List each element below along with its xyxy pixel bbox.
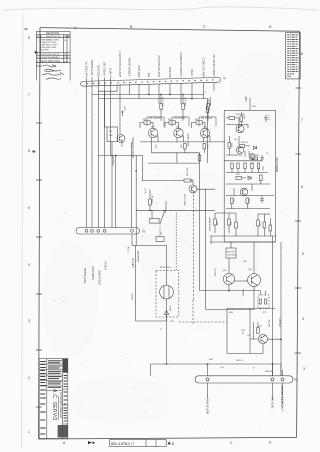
terminal strip TB3 bbox=[195, 376, 293, 383]
svg-text:3B: 3B bbox=[24, 27, 28, 31]
bottom fold label box bbox=[110, 440, 167, 447]
TB3 pin 2 bbox=[271, 378, 274, 381]
svg-text:+ TACH SIG: + TACH SIG bbox=[282, 398, 285, 412]
capacitor C2 bbox=[260, 155, 263, 162]
wiring y172 bbox=[226, 169, 268, 173]
svg-text:C6 .47: C6 .47 bbox=[145, 187, 147, 194]
svg-text:REVISIONS: REVISIONS bbox=[46, 32, 59, 35]
TB3 below stubs bbox=[207, 383, 209, 398]
bus wire L2 bbox=[98, 85, 117, 93]
terminal strip TB1 bbox=[80, 77, 220, 86]
bus wire L3 bbox=[92, 93, 204, 95]
resistor comb R35b bbox=[237, 163, 239, 169]
diode CR1 bbox=[254, 146, 257, 149]
TB2 pin 5 bbox=[131, 229, 134, 232]
notes block frame bbox=[286, 33, 301, 79]
svg-text:+15V: +15V bbox=[125, 105, 127, 111]
+28V feed bbox=[249, 98, 251, 110]
revision table frame bbox=[36, 32, 70, 63]
svg-text:- TACH SIGNAL: - TACH SIGNAL bbox=[91, 58, 94, 77]
svg-text:SYM: SYM bbox=[37, 36, 42, 38]
wire drop to TB2 bbox=[111, 155, 113, 227]
transistor Q12 bbox=[258, 334, 267, 343]
resistor R32 bbox=[228, 143, 231, 149]
svg-text:DESCRIPTION: DESCRIPTION bbox=[46, 36, 61, 38]
TB2 pin 4 bbox=[103, 229, 106, 232]
divider y160.8 bbox=[224, 160, 262, 162]
svg-text:GND (SIG): GND (SIG) bbox=[138, 65, 141, 77]
scan noise bbox=[124, 92, 127, 95]
base resistor R4 bbox=[144, 121, 150, 124]
transistor Q6c bbox=[249, 154, 255, 160]
zone ticks right edge bbox=[296, 87, 302, 89]
svg-text:Q6 2N1132: Q6 2N1132 bbox=[201, 118, 213, 120]
power transistor Q10 bbox=[223, 273, 234, 284]
resistor R43 bbox=[257, 220, 260, 226]
stage 1: resistor R1 bbox=[160, 104, 163, 110]
svg-text:R16: R16 bbox=[181, 145, 183, 148]
+15V stub bbox=[121, 111, 124, 117]
svg-text:6: 6 bbox=[301, 185, 303, 189]
resistor R36 bbox=[236, 177, 242, 180]
inter-stage bus y152.8 bbox=[152, 152, 200, 154]
emitter resistor R7 bbox=[184, 144, 187, 149]
svg-text:COMMON: COMMON bbox=[113, 155, 115, 166]
svg-text:TB: TB bbox=[294, 379, 297, 382]
svg-text:R13: R13 bbox=[156, 145, 158, 148]
svg-text:R17: R17 bbox=[195, 119, 198, 121]
bottom row: resistor R40 bbox=[214, 219, 217, 225]
lower rows of block bbox=[226, 184, 274, 196]
resistor R38 bbox=[231, 198, 234, 204]
svg-text:SPEED CONTROL: SPEED CONTROL bbox=[132, 136, 135, 158]
TB3 pin 3 bbox=[281, 378, 284, 381]
resistor R25 bbox=[198, 155, 201, 161]
resistor R50 bbox=[259, 299, 261, 304]
resistor R42 bbox=[235, 222, 238, 228]
svg-text:5: 5 bbox=[28, 206, 30, 210]
motor M1 bbox=[160, 285, 174, 299]
bus y163 bbox=[148, 162, 200, 164]
handwritten revision entries bbox=[43, 65, 56, 68]
wiring top bbox=[226, 112, 241, 128]
svg-text:SHUNT: SHUNT bbox=[132, 292, 134, 300]
svg-text:2N1132: 2N1132 bbox=[122, 139, 124, 147]
base resistor R5 bbox=[169, 121, 175, 124]
TB2 drop wire bbox=[131, 234, 133, 245]
diode CR4 bbox=[248, 176, 251, 179]
svg-text:7: 7 bbox=[28, 93, 30, 97]
TB2 pin 3 bbox=[97, 229, 100, 232]
svg-text:ARMATURE: ARMATURE bbox=[137, 250, 140, 262]
Q1 wiring bbox=[119, 127, 121, 135]
transistor Q3 bbox=[174, 128, 183, 137]
dashed rail lower bbox=[192, 300, 194, 325]
bus wire L4 bbox=[98, 98, 207, 100]
stage feed drops bbox=[160, 94, 162, 104]
resistor R51 bbox=[264, 299, 266, 304]
TB3 pin 1 bbox=[206, 378, 209, 381]
svg-text:MODULATOR: MODULATOR bbox=[276, 157, 279, 172]
motor dashed enclosure bbox=[156, 271, 179, 318]
resistor R20 bbox=[149, 199, 152, 205]
resistor R39 bbox=[246, 198, 249, 204]
power wiring bbox=[206, 286, 255, 309]
bus y210.3 bbox=[136, 209, 215, 211]
fold marks bbox=[88, 441, 92, 444]
dashed rail bbox=[193, 191, 195, 300]
svg-text:SCHEMATIC DIAGRAM: SCHEMATIC DIAGRAM bbox=[59, 392, 62, 418]
resistor feed wires bbox=[160, 109, 162, 120]
svg-text:4: 4 bbox=[28, 263, 30, 267]
TB3 drop wires bbox=[207, 364, 209, 376]
svg-text:5: 5 bbox=[302, 252, 304, 256]
TB2 pin 2 bbox=[91, 229, 94, 232]
stage wiring bbox=[140, 123, 153, 129]
transistor Q4 bbox=[200, 128, 209, 137]
resistor comb R35a bbox=[231, 163, 233, 169]
diode CR8 bbox=[164, 311, 168, 315]
title block dark stamp cells bbox=[63, 359, 68, 372]
title block frame bbox=[39, 359, 68, 439]
resistor R37 bbox=[260, 175, 263, 181]
svg-text:NOTES: NOTES bbox=[42, 50, 50, 52]
svg-text:R29 2K: R29 2K bbox=[241, 142, 249, 144]
svg-text:+28V DC SHIELD: +28V DC SHIELD bbox=[203, 57, 206, 77]
svg-text:+5V TEST PT: +5V TEST PT bbox=[86, 61, 89, 77]
resistor comb R35d bbox=[251, 163, 253, 169]
stage 2 outline bbox=[172, 117, 189, 126]
junction dots bbox=[149, 210, 151, 212]
scan noise 2 bbox=[202, 41, 205, 44]
dashed tach link bbox=[175, 213, 177, 271]
common bus y155.4 bbox=[98, 154, 142, 156]
transistor Q6a bbox=[236, 125, 244, 133]
svg-text:R40 5W: R40 5W bbox=[269, 320, 271, 327]
svg-text:1-8TB-2: 1-8TB-2 bbox=[278, 318, 281, 327]
stage 3 outline bbox=[199, 117, 216, 126]
bottom row wiring bbox=[215, 213, 270, 225]
TB2 pin 1 bbox=[85, 229, 88, 232]
svg-text:R12 4.7K: R12 4.7K bbox=[163, 96, 165, 106]
output box label bbox=[226, 248, 236, 258]
border stain mark bbox=[32, 150, 35, 152]
svg-text:RT1: RT1 bbox=[263, 312, 267, 314]
wire right of Q5 bbox=[205, 189, 207, 309]
svg-text:- SPEED REF: - SPEED REF bbox=[104, 61, 107, 77]
stage 3: resistor R3 bbox=[207, 104, 210, 110]
svg-text:R19: R19 bbox=[208, 145, 210, 148]
svg-text:R48 1W: R48 1W bbox=[265, 371, 272, 373]
resistor R41 bbox=[228, 219, 231, 225]
power transistor Q11 bbox=[248, 274, 261, 287]
dashed link motor to amp bbox=[179, 321, 227, 323]
modulator block frame bbox=[224, 110, 275, 242]
svg-text:GND (SIG): GND (SIG) bbox=[97, 65, 100, 77]
left rail wires bbox=[86, 78, 88, 228]
TB1 pin number marks bbox=[87, 80, 214, 84]
svg-text:+ INPUT: + INPUT bbox=[109, 67, 112, 77]
svg-text:R11: R11 bbox=[143, 119, 146, 121]
svg-text:TB: TB bbox=[223, 77, 227, 80]
bottom bus bbox=[151, 363, 282, 365]
svg-text:REDRAWN & REV: REDRAWN & REV bbox=[42, 38, 60, 41]
mid wiring bbox=[229, 136, 250, 157]
svg-text:TB5: TB5 bbox=[148, 72, 151, 77]
small circle Q6b bbox=[236, 146, 243, 153]
junction dots bbox=[148, 94, 193, 100]
svg-text:4: 4 bbox=[302, 317, 304, 321]
right side wires to TB3 bbox=[272, 236, 274, 376]
svg-text:+28V DC: +28V DC bbox=[132, 258, 135, 268]
resistor R30 bbox=[229, 117, 235, 120]
zone ticks left edge bbox=[36, 66, 42, 407]
notes text lines (rotated tiny print) bbox=[287, 35, 298, 76]
stage 2: resistor R2 bbox=[182, 104, 185, 110]
resistor R22 bbox=[184, 179, 191, 182]
wiring y184 bbox=[226, 178, 270, 184]
svg-text:F1 5A: F1 5A bbox=[127, 246, 130, 252]
svg-text:6: 6 bbox=[28, 149, 30, 153]
svg-text:SHIELD: SHIELD bbox=[105, 261, 108, 270]
svg-text:R44 10: R44 10 bbox=[236, 360, 244, 362]
svg-text:- SYNC: - SYNC bbox=[191, 69, 194, 78]
svg-text:ECN 2410 ADDED: ECN 2410 ADDED bbox=[42, 56, 60, 59]
resistor R31 bbox=[240, 116, 243, 122]
svg-text:+15V DC REG SUP: +15V DC REG SUP bbox=[158, 55, 161, 77]
svg-text:Q4 2N1132: Q4 2N1132 bbox=[149, 118, 161, 120]
switch S1 box bbox=[150, 219, 160, 224]
svg-text:10K: 10K bbox=[109, 135, 113, 137]
svg-text:T1: T1 bbox=[160, 329, 162, 331]
svg-text:R23 1K: R23 1K bbox=[210, 98, 212, 106]
transistor Q1 bbox=[117, 135, 125, 143]
regulator sub box bbox=[227, 308, 275, 353]
resistor R52 bbox=[257, 328, 260, 334]
svg-text:B9C-4-8TB-2 | 7: B9C-4-8TB-2 | 7 bbox=[111, 442, 134, 446]
svg-text:4: 4 bbox=[205, 92, 206, 94]
emitter resistor R8 bbox=[203, 144, 206, 149]
svg-text:INPUT AMPL: INPUT AMPL bbox=[187, 132, 190, 146]
stage 1 outline bbox=[147, 117, 164, 126]
title block dense text region bbox=[40, 361, 67, 434]
svg-text:Q5 2N1132: Q5 2N1132 bbox=[174, 118, 186, 120]
border frame bbox=[40, 28, 300, 32]
wire pin drops to buses bbox=[119, 84, 121, 127]
armature loop bbox=[136, 246, 167, 322]
svg-text:SIG GND: SIG GND bbox=[169, 67, 172, 78]
switch lever bbox=[160, 213, 164, 224]
bias network box bbox=[107, 127, 118, 142]
svg-text:3: 3 bbox=[303, 367, 305, 371]
svg-text:+15V DC REG SUPPLY: +15V DC REG SUPPLY bbox=[119, 50, 122, 77]
svg-text:+ SERVO FEEDBACK: + SERVO FEEDBACK bbox=[180, 52, 183, 77]
rail pair down from speed control bbox=[130, 142, 132, 228]
svg-text:GND (CHAS): GND (CHAS) bbox=[98, 270, 101, 285]
svg-text:ECN 2236 CHG R4: ECN 2236 CHG R4 bbox=[42, 54, 61, 56]
resistor R44 bbox=[263, 222, 266, 228]
scan smudges bbox=[42, 240, 98, 360]
svg-text:8: 8 bbox=[28, 36, 30, 40]
small box B bbox=[156, 237, 164, 242]
svg-text:R14: R14 bbox=[168, 119, 171, 121]
resistor R24 bbox=[206, 107, 209, 112]
wire step to Q5 bbox=[143, 155, 185, 180]
Q12 wiring bbox=[250, 322, 281, 353]
wiring y207 bbox=[226, 204, 270, 209]
resistor comb R35e bbox=[257, 163, 259, 169]
svg-text:+ MODULATOR SIG: + MODULATOR SIG bbox=[213, 55, 216, 78]
capacitor C1 bbox=[264, 115, 268, 123]
resistor R34 bbox=[252, 157, 258, 160]
svg-text:1: 1 bbox=[28, 430, 30, 434]
svg-text:8: 8 bbox=[301, 52, 303, 56]
inter-stage bus y142 bbox=[140, 141, 225, 143]
base resistor R6 bbox=[196, 121, 202, 124]
svg-text:- ERROR SIGNAL: - ERROR SIGNAL bbox=[129, 56, 132, 77]
title block right column text rows bbox=[64, 386, 67, 388]
transistor Q2 bbox=[148, 128, 157, 137]
transistor Q5 bbox=[189, 185, 197, 193]
dashed thermal box bbox=[258, 295, 269, 308]
rev zone marker triangle bbox=[35, 51, 38, 54]
capacitor C3 bbox=[260, 196, 263, 203]
svg-text:- TACH SIG: - TACH SIG bbox=[272, 397, 275, 410]
svg-text:3: 3 bbox=[28, 319, 30, 323]
svg-text:ECN 2633 CHG: ECN 2633 CHG bbox=[42, 59, 60, 63]
stage emitter drops bbox=[152, 136, 159, 142]
terminal strip TB2 bbox=[76, 228, 140, 234]
resistor R33 bbox=[239, 145, 245, 148]
svg-text:7: 7 bbox=[301, 118, 303, 122]
resistor comb R35c bbox=[244, 163, 246, 169]
transistor Q6d bbox=[240, 188, 248, 196]
svg-text:2: 2 bbox=[28, 376, 30, 380]
svg-text:R15 4.7K: R15 4.7K bbox=[185, 96, 187, 106]
svg-text:A.C. SERVO: A.C. SERVO bbox=[51, 389, 57, 421]
resistor R45 bbox=[269, 225, 272, 231]
